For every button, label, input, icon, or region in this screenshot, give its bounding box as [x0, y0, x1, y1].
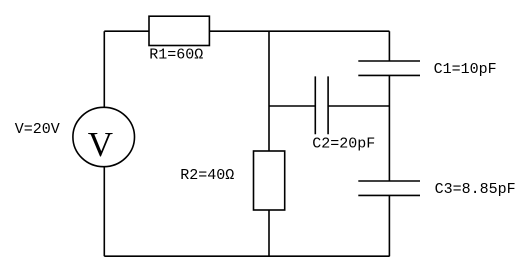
- svg-text:R1=60Ω: R1=60Ω: [149, 47, 203, 64]
- svg-text:C1=10pF: C1=10pF: [434, 61, 497, 78]
- svg-text:V=20V: V=20V: [15, 121, 60, 138]
- svg-text:V: V: [88, 125, 113, 164]
- svg-text:R2=40Ω: R2=40Ω: [180, 167, 234, 184]
- svg-text:C3=8.85pF: C3=8.85pF: [435, 181, 516, 198]
- svg-text:C2=20pF: C2=20pF: [312, 136, 375, 153]
